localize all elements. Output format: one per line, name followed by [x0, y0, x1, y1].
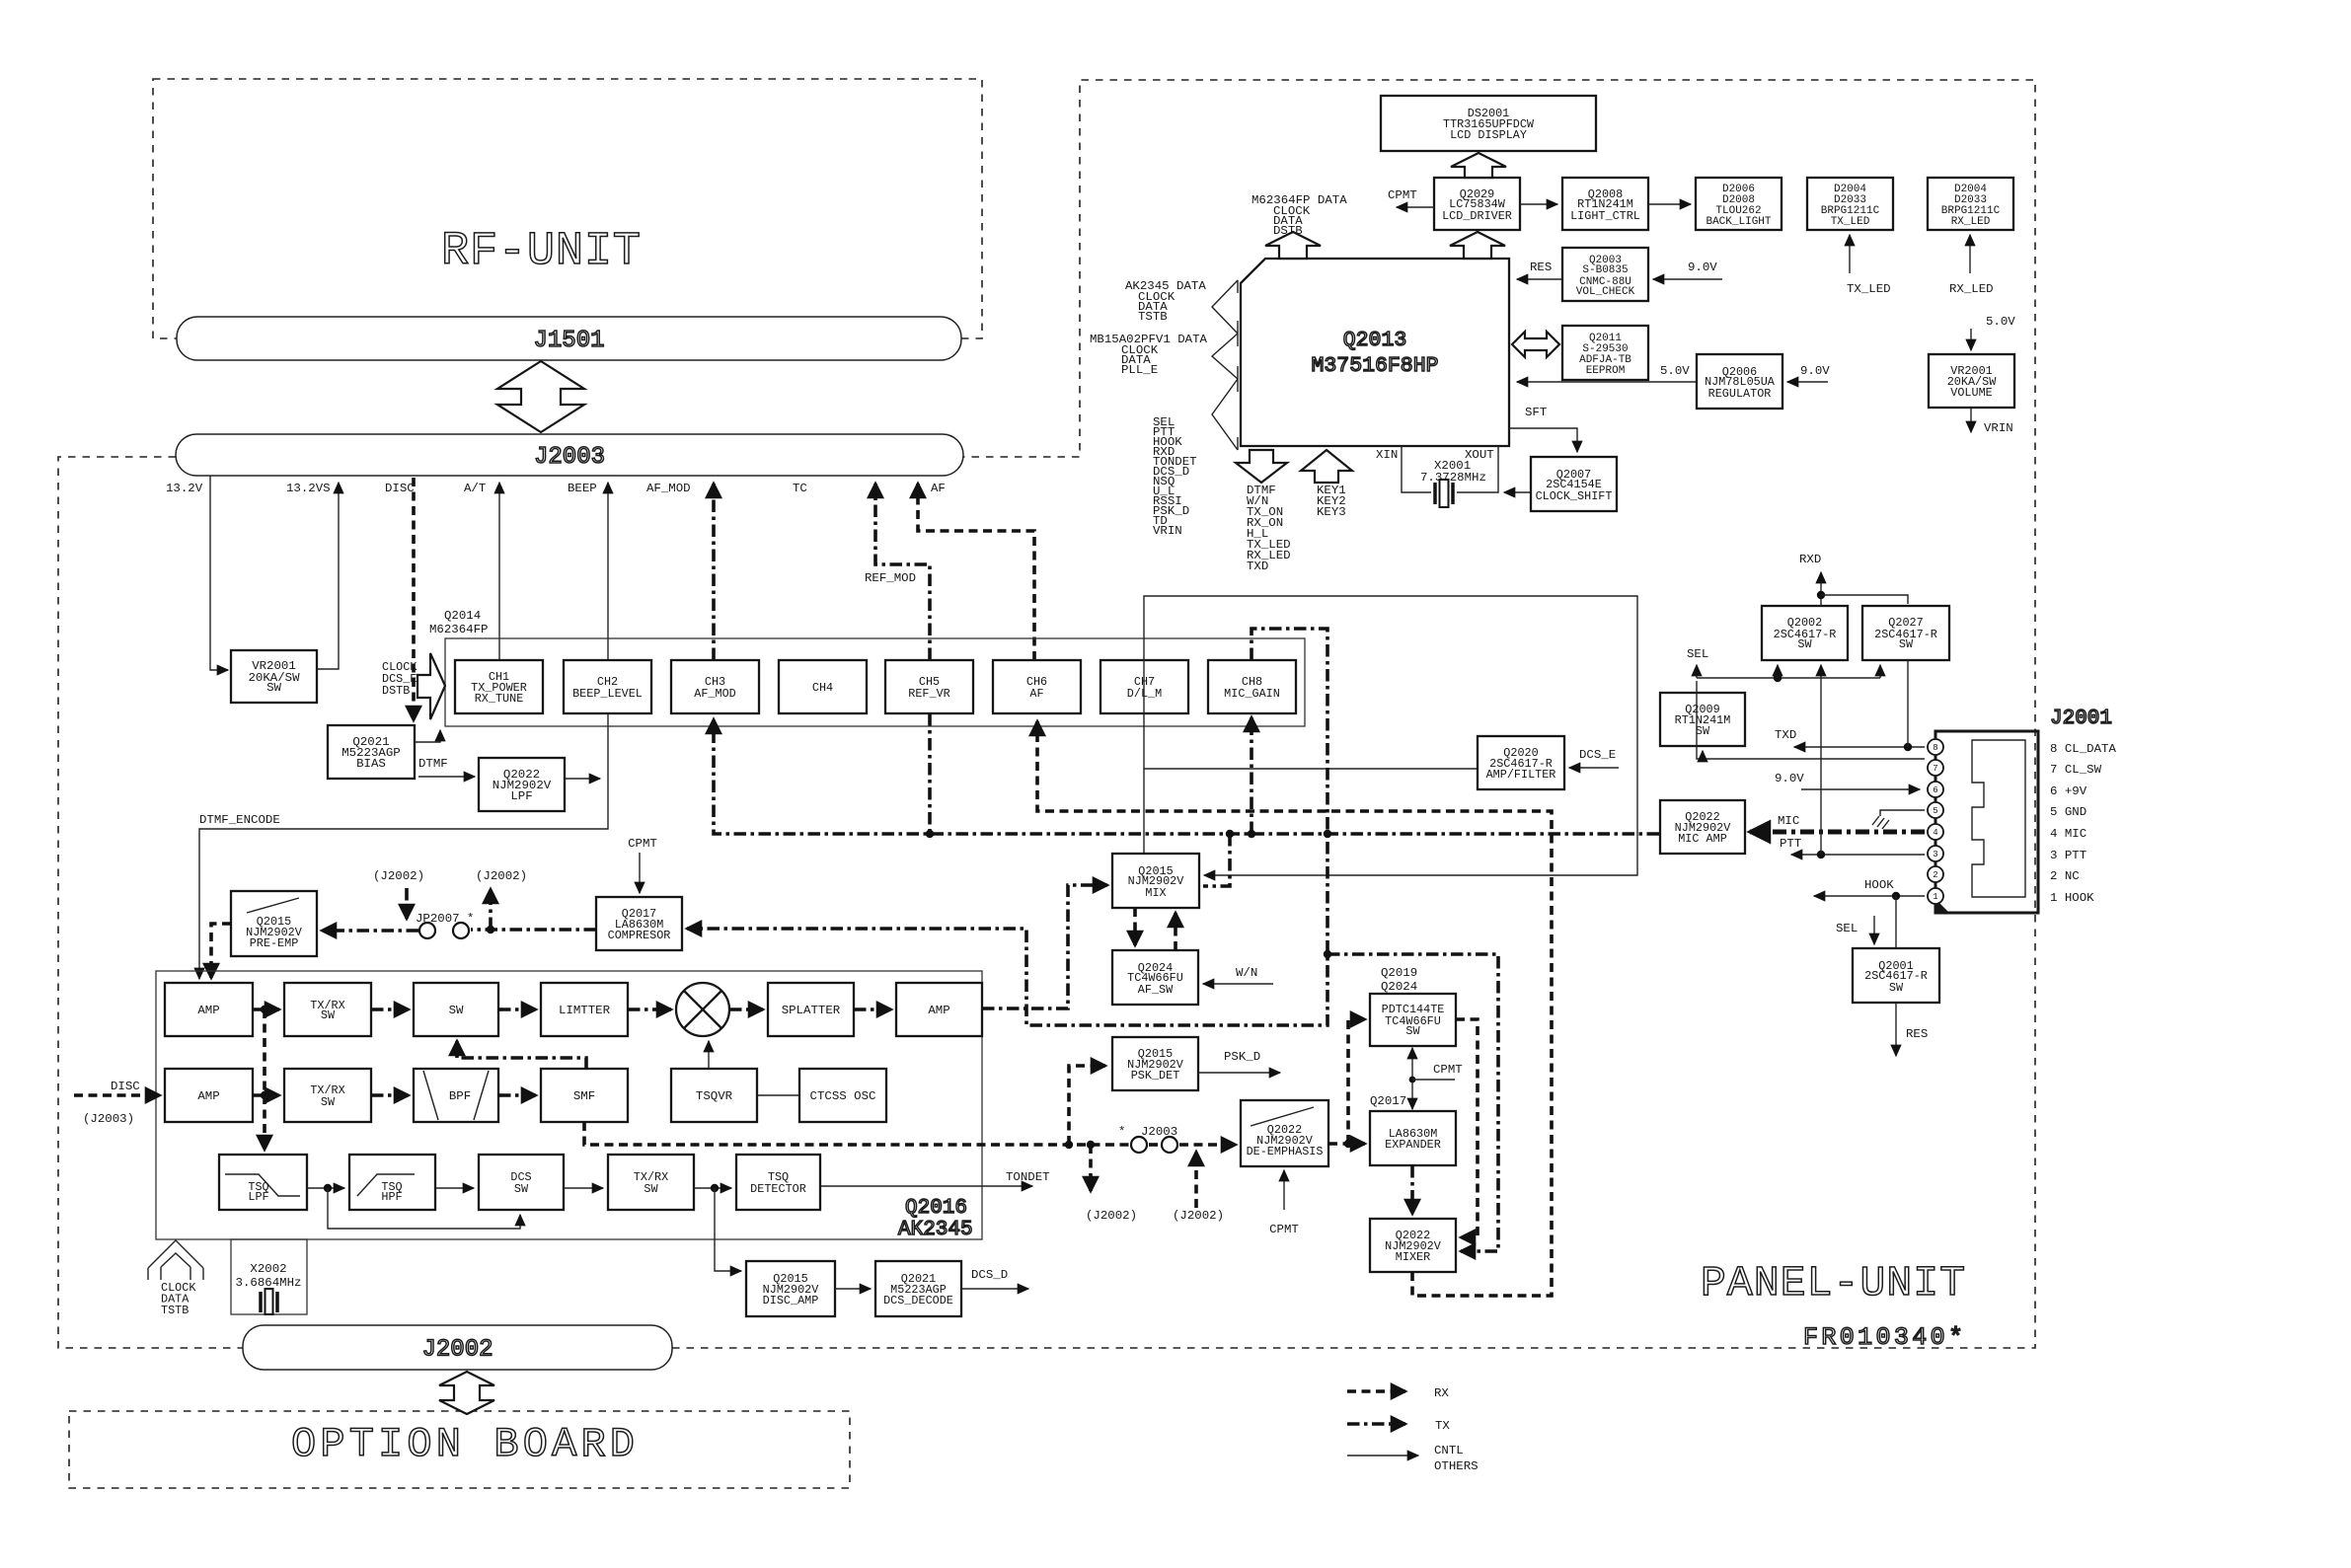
svg-text:AF: AF — [931, 482, 946, 495]
connector J1501 — [177, 317, 961, 360]
junction amp tie bottom — [261, 1091, 268, 1099]
crystal X2001 symbol — [1435, 483, 1453, 504]
arrow M62364FP data — [1265, 232, 1321, 259]
wire TSQVR to CTCSS OSC — [757, 1094, 799, 1096]
wire MIC from J2001 — [1750, 830, 1925, 835]
limiter — [541, 983, 628, 1036]
pin 2 NC — [1928, 866, 1943, 882]
pin 7 CL_SW — [1928, 760, 1943, 776]
wire RX_LED — [1969, 235, 1971, 273]
svg-text:XIN: XIN — [1376, 448, 1398, 462]
crystal X2002 symbol — [261, 1292, 277, 1312]
wire 9.0V to Q2006 — [1787, 381, 1828, 383]
chevron ticks — [1237, 280, 1239, 450]
svg-text:REF_MOD: REF_MOD — [865, 571, 916, 585]
svg-text:AF: AF — [1029, 687, 1043, 701]
wire TX/RX SW to BPF — [371, 1093, 409, 1097]
svg-text:TONDET: TONDET — [1006, 1170, 1050, 1184]
wire CPMT from Q2029 — [1397, 206, 1434, 208]
svg-text:13.2V: 13.2V — [166, 482, 203, 495]
svg-text:MIC_GAIN: MIC_GAIN — [1224, 687, 1280, 701]
svg-text:9.0V: 9.0V — [1775, 772, 1804, 785]
wire RES Q2003 — [1517, 278, 1562, 280]
svg-text:RX_LED: RX_LED — [1949, 282, 1994, 296]
wire LIMTTER to mixer — [628, 1008, 671, 1011]
PANEL-UNIT dashed border — [58, 80, 2035, 1348]
wire rx audio SMF out — [584, 1122, 1129, 1145]
svg-text:CH4: CH4 — [812, 681, 833, 695]
svg-text:LIMTTER: LIMTTER — [559, 1004, 611, 1017]
wire de-emphasis to expander — [1328, 1142, 1365, 1146]
codec outer box Q2016 AK2345 — [156, 971, 982, 1239]
wire HPF to DCS SW — [435, 1187, 474, 1189]
svg-text:LCD_DRIVER: LCD_DRIVER — [1442, 209, 1512, 223]
svg-text:RES: RES — [1530, 261, 1552, 274]
mixer Q2015 MIX — [1112, 854, 1199, 908]
compressor Q2017 — [596, 897, 682, 950]
lcd driver Q2029 — [1434, 178, 1520, 230]
svg-text:*: * — [1118, 1125, 1125, 1139]
wire SFT — [1509, 428, 1577, 452]
rx amp — [165, 1069, 253, 1122]
svg-text:3: 3 — [1933, 850, 1937, 859]
svg-text:7 CL_SW: 7 CL_SW — [2050, 763, 2102, 777]
svg-text:AK2345: AK2345 — [898, 1219, 973, 1241]
pin 3 PTT — [1928, 846, 1943, 861]
crystal X2002 cell — [231, 1239, 307, 1314]
wire to mixer Q2022 — [1327, 954, 1498, 1251]
jumper JP2007 pads — [419, 923, 435, 938]
switch Q2001 — [1853, 948, 1939, 1003]
RF-UNIT dashed border — [153, 79, 982, 338]
arrow KEY in — [1301, 450, 1352, 483]
svg-text:7.3728MHz: 7.3728MHz — [1420, 471, 1486, 485]
junction PTT — [1817, 851, 1825, 859]
svg-text:TX: TX — [1435, 1419, 1450, 1433]
svg-text:REGULATOR: REGULATOR — [1708, 387, 1772, 401]
wire TC / REF_MOD — [875, 484, 930, 660]
svg-text:J2003: J2003 — [1141, 1125, 1177, 1139]
dcs switch — [479, 1155, 564, 1210]
arrowheads PDTC/expander CPMT — [1411, 1048, 1413, 1049]
wire Q2029 to Q2008 — [1520, 203, 1557, 205]
wire TX/RX SW to SW — [371, 1008, 409, 1011]
svg-text:CTCSS OSC: CTCSS OSC — [810, 1089, 876, 1103]
svg-text:DSTB: DSTB — [1273, 224, 1303, 238]
svg-text:CNTL: CNTL — [1434, 1444, 1464, 1457]
wire CPMT to de-emphasis — [1283, 1170, 1285, 1210]
svg-text:BEEP_LEVEL: BEEP_LEVEL — [572, 687, 643, 701]
svg-text:COMPRESOR: COMPRESOR — [608, 929, 671, 942]
pin 5 GND — [1928, 802, 1943, 818]
svg-text:SW: SW — [321, 1095, 336, 1109]
tx/rx switch 2 — [284, 1069, 371, 1122]
svg-text:CPMT: CPMT — [628, 837, 657, 851]
tsq vr — [671, 1069, 757, 1122]
wire HOOK — [1814, 895, 1925, 897]
wire XIN — [1402, 446, 1431, 492]
svg-text:VOLUME: VOLUME — [1950, 386, 1992, 400]
svg-text:DETECTOR: DETECTOR — [750, 1182, 806, 1196]
af switch Q2024 — [1112, 950, 1198, 1005]
svg-text:REF_VR: REF_VR — [908, 687, 949, 701]
switch PDTC144TE — [1370, 994, 1456, 1046]
wire AF_MOD — [712, 484, 716, 660]
svg-text:PSK_DET: PSK_DET — [1131, 1069, 1180, 1083]
wire rx audio seg3 — [1179, 1143, 1236, 1147]
svg-text:M37516F8HP: M37516F8HP — [1311, 354, 1438, 378]
junction mic bus x1345 — [1324, 830, 1331, 838]
svg-text:Q2013: Q2013 — [1343, 329, 1407, 352]
switch Q2027 — [1862, 606, 1949, 660]
wire to PDTC switch — [1348, 1019, 1365, 1144]
svg-text:HOOK: HOOK — [1864, 878, 1894, 892]
svg-text:3.6864MHz: 3.6864MHz — [236, 1276, 302, 1290]
svg-text:LPF: LPF — [248, 1190, 268, 1204]
wire DISC into AMP — [74, 1093, 160, 1097]
wire TX/RX SW to TSQ DETECTOR — [694, 1187, 731, 1189]
svg-text:DCS_D: DCS_D — [971, 1268, 1008, 1282]
junction rx to psk — [1065, 1141, 1073, 1149]
tx led D2004 D2033 — [1807, 178, 1893, 230]
arrow Q2013 to Q2029 — [1450, 232, 1505, 259]
wire rx stub down (J2002) — [1089, 1145, 1093, 1191]
svg-text:AMP: AMP — [197, 1089, 219, 1103]
wire rx to PSK_DET — [1069, 1066, 1105, 1145]
arrow CLOCK DATA TSTB — [148, 1240, 203, 1280]
wire mixer to SPLATTER — [729, 1008, 763, 1011]
svg-text:M62364FP: M62364FP — [429, 623, 489, 636]
wire MIX to AF_SW — [1133, 908, 1137, 945]
amp/filter Q2020 — [1478, 736, 1564, 789]
svg-text:J2001: J2001 — [2050, 708, 2112, 730]
clock shift Q2007 — [1531, 457, 1617, 511]
svg-text:3 PTT: 3 PTT — [2050, 849, 2086, 862]
dac channel CH2 — [564, 660, 651, 713]
svg-text:DISC: DISC — [111, 1080, 140, 1093]
wire RXD to Q2027 — [1821, 595, 1908, 604]
svg-text:SW: SW — [266, 681, 281, 695]
dac channel CH6 — [993, 660, 1081, 713]
svg-text:5.0V: 5.0V — [1986, 315, 2015, 329]
connector J2001 body — [1935, 731, 2038, 913]
svg-text:MIX: MIX — [1145, 886, 1166, 900]
junction TXD — [1904, 743, 1912, 751]
wire mic bus — [714, 719, 1659, 834]
svg-text:DCS_E: DCS_E — [1579, 748, 1616, 762]
svg-text:PRE-EMP: PRE-EMP — [250, 936, 299, 950]
junction mic bus x1246 — [1226, 830, 1234, 838]
svg-text:BACK_LIGHT: BACK_LIGHT — [1706, 216, 1771, 228]
svg-text:6: 6 — [1933, 785, 1937, 795]
backlight D2006 D2008 — [1696, 178, 1782, 230]
dac channel CH3 — [671, 660, 759, 713]
svg-text:DTMF: DTMF — [418, 757, 448, 771]
junction rx to J2002 — [1087, 1141, 1095, 1149]
svg-text:VRIN: VRIN — [1984, 421, 2013, 435]
dac channel CH5 — [885, 660, 973, 713]
volume switch VR2001 — [231, 650, 317, 703]
svg-text:Q2024: Q2024 — [1381, 980, 1417, 994]
wire 9.0V to Q2003 — [1653, 278, 1722, 280]
svg-text:DCS_DECODE: DCS_DECODE — [883, 1294, 953, 1307]
svg-text:Q2017: Q2017 — [1370, 1094, 1406, 1108]
svg-text:RX_LED: RX_LED — [1951, 216, 1991, 228]
wire 5.0V Q2006 to cpu — [1517, 381, 1697, 383]
wire DCS_D out — [961, 1288, 1028, 1290]
wire MIXER af out — [1037, 721, 1552, 1296]
junction CPMT — [1409, 1077, 1416, 1083]
svg-text:DTMF_ENCODE: DTMF_ENCODE — [199, 813, 280, 827]
wire Q2027 to TXD — [1907, 660, 1909, 747]
wire PTT to Q2002 — [1820, 665, 1822, 855]
wire SEL into Q2002 — [1777, 665, 1779, 678]
svg-text:SW: SW — [644, 1182, 658, 1196]
svg-text:TSQVR: TSQVR — [696, 1089, 733, 1103]
dac channel CH4 — [779, 660, 867, 713]
wire 13.2V — [210, 476, 228, 670]
svg-text:RX: RX — [1434, 1386, 1449, 1400]
smf filter — [541, 1069, 628, 1122]
wire DCS_E stub — [1569, 767, 1619, 769]
regulator Q2006 — [1697, 354, 1782, 409]
svg-text:2 NC: 2 NC — [2050, 869, 2080, 883]
svg-text:2: 2 — [1933, 870, 1937, 880]
wire tx stub down from (J2002) — [405, 888, 409, 919]
legend TX line — [1347, 1422, 1405, 1426]
wire amp outputs tie — [263, 1009, 266, 1150]
arrow DTMF out — [1236, 450, 1287, 483]
wire DISC_AMP to DCS_DECODE — [835, 1288, 871, 1290]
chevron cpu signals — [1212, 379, 1238, 450]
svg-text:TX_LED: TX_LED — [1831, 216, 1870, 228]
svg-text:RX_TUNE: RX_TUNE — [475, 692, 524, 706]
psk detector Q2015 — [1112, 1037, 1198, 1090]
svg-text:A/T: A/T — [464, 482, 486, 495]
junction expander input — [1344, 1140, 1352, 1148]
svg-text:BPF: BPF — [449, 1089, 471, 1103]
wire Q2007 to crystal — [1504, 491, 1531, 493]
junction HOOK — [1892, 892, 1900, 900]
junction mic bus CH5 — [926, 830, 934, 838]
wire Q2020 loop to MIX — [1144, 596, 1637, 875]
svg-text:SW: SW — [321, 1008, 336, 1022]
svg-text:AF_MOD: AF_MOD — [646, 482, 691, 495]
svg-text:SMF: SMF — [573, 1089, 595, 1103]
wire TSQVR to mixer — [708, 1041, 710, 1069]
wire PDTC to MIXER — [1456, 1019, 1478, 1237]
arrow CLOCK DCS_E DSTB into Q2014 — [417, 653, 445, 719]
svg-text:9.0V: 9.0V — [1800, 364, 1830, 378]
tx out amp — [896, 983, 982, 1036]
svg-text:MIC: MIC — [1778, 814, 1799, 828]
svg-text:TSTB: TSTB — [1138, 310, 1168, 324]
svg-text:SFT: SFT — [1525, 406, 1547, 419]
wire TONDET out — [820, 1185, 1032, 1187]
svg-text:SW: SW — [1405, 1024, 1420, 1038]
svg-text:5 GND: 5 GND — [2050, 805, 2086, 819]
svg-text:S-B0835: S-B0835 — [1582, 264, 1628, 276]
wire AMP to TX/RX SW row2 — [253, 1093, 279, 1097]
svg-text:DE-EMPHASIS: DE-EMPHASIS — [1247, 1145, 1324, 1158]
switch Q2002 — [1762, 606, 1848, 660]
svg-text:RF-UNIT: RF-UNIT — [441, 226, 641, 278]
dac outer box Q2014 — [445, 638, 1305, 726]
svg-text:KEY3: KEY3 — [1317, 505, 1346, 519]
bias Q2021 — [328, 725, 415, 779]
wire to DISC_AMP — [715, 1188, 741, 1271]
wire TXD — [1794, 746, 1925, 748]
lcd display DS2001 — [1381, 96, 1596, 151]
wire SW to LIMTTER — [498, 1008, 536, 1011]
wire PTT — [1791, 854, 1925, 856]
wire pin5 gnd — [1880, 810, 1925, 816]
svg-text:Q2016: Q2016 — [905, 1197, 967, 1220]
wire mic bus to MIX — [1203, 834, 1230, 886]
eeprom Q2011 — [1562, 326, 1648, 380]
pin 8 CL_DATA — [1928, 739, 1943, 755]
wire W/N into AF_SW — [1203, 983, 1273, 985]
junction mic bus CH8 — [1248, 830, 1255, 838]
double arrow J2002-OPTION BOARD — [439, 1372, 494, 1414]
junction tsq lpf out — [324, 1184, 332, 1192]
wire 9.0V to pin6 — [1801, 788, 1920, 790]
legend RX line — [1347, 1389, 1405, 1393]
lpf Q2022 — [479, 758, 565, 811]
wire DTMF into LPF — [418, 776, 475, 778]
svg-text:BIAS: BIAS — [356, 757, 386, 771]
switch SW — [414, 983, 498, 1036]
svg-text:PTT: PTT — [1780, 837, 1801, 851]
arrow Q2013-Q2011 eeprom bus — [1512, 332, 1559, 357]
wire CPMT stub — [1412, 1079, 1455, 1081]
wire Q2009 base — [1702, 751, 1704, 759]
svg-text:TXD: TXD — [1775, 728, 1796, 742]
svg-text:LIGHT_CTRL: LIGHT_CTRL — [1570, 209, 1640, 223]
svg-text:JP2007 *: JP2007 * — [416, 912, 475, 926]
svg-text:TX_LED: TX_LED — [1847, 282, 1891, 296]
wire Q2017 to JP2007 to PRE-EMP — [471, 928, 596, 932]
svg-text:EXPANDER: EXPANDER — [1385, 1138, 1441, 1152]
wire Q2001 RES — [1895, 1003, 1897, 1056]
tx/rx switch 3 — [608, 1155, 694, 1210]
wire BPF to SMF — [498, 1093, 536, 1097]
mixer Q2022 MIXER — [1370, 1219, 1456, 1272]
svg-text:7: 7 — [1933, 764, 1937, 774]
wire XOUT — [1457, 446, 1498, 492]
svg-text:SW: SW — [449, 1004, 464, 1017]
svg-text:CPMT: CPMT — [1269, 1223, 1299, 1236]
wire tx stub up to (J2002) — [489, 889, 493, 930]
svg-text:W/N: W/N — [1236, 966, 1257, 980]
wire TSQ LPF to HPF — [307, 1187, 344, 1189]
dcs decoder Q2021 — [875, 1261, 961, 1316]
svg-text:TSTB: TSTB — [161, 1304, 189, 1317]
tsq low pass filter — [219, 1155, 307, 1210]
svg-text:EEPROM: EEPROM — [1586, 365, 1626, 377]
wire AMP out to MIX — [982, 885, 1107, 1008]
svg-text:(J2003): (J2003) — [83, 1112, 134, 1126]
svg-text:SW: SW — [1797, 637, 1812, 651]
svg-text:AMP: AMP — [928, 1004, 949, 1017]
wire Q2008 to D2006 — [1648, 203, 1691, 205]
wire SEL rail — [1697, 681, 1925, 759]
pre-emphasis Q2015 — [231, 891, 317, 956]
svg-text:8 CL_DATA: 8 CL_DATA — [2050, 742, 2116, 756]
ground symbol — [1872, 816, 1889, 829]
wire 5.0V to volume — [1970, 329, 1972, 350]
svg-text:MIC AMP: MIC AMP — [1678, 832, 1727, 846]
svg-text:DSTB: DSTB — [382, 684, 410, 698]
svg-text:TXD: TXD — [1247, 560, 1268, 573]
tsq high pass filter — [349, 1155, 435, 1210]
pin 4 MIC — [1928, 824, 1943, 840]
svg-text:LPF: LPF — [510, 789, 532, 803]
svg-text:(J2002): (J2002) — [1173, 1209, 1224, 1223]
svg-text:HPF: HPF — [381, 1190, 402, 1204]
wire PSK_D out — [1198, 1072, 1280, 1074]
volume check Q2003 — [1562, 248, 1648, 301]
svg-text:PANEL-UNIT: PANEL-UNIT — [1701, 1259, 1965, 1307]
arrow Q2029 to DS2001 — [1451, 153, 1506, 178]
svg-text:AMP: AMP — [197, 1004, 219, 1017]
svg-text:Q2014: Q2014 — [444, 609, 481, 623]
wire AF from J2003 — [918, 484, 1034, 660]
wire expander to MIXER — [1410, 1165, 1414, 1214]
junction tx to J2002 — [487, 926, 494, 933]
wire PRE-EMP out to AMP — [211, 924, 231, 978]
svg-text:VRIN: VRIN — [1153, 524, 1182, 538]
splatter filter — [768, 983, 854, 1036]
band pass filter BPF — [414, 1069, 498, 1122]
wire DISC from J2003 — [412, 478, 416, 720]
svg-text:(J2002): (J2002) — [1086, 1209, 1137, 1223]
tx amp — [165, 983, 253, 1036]
svg-text:AF_MOD: AF_MOD — [694, 687, 735, 701]
svg-text:4 MIC: 4 MIC — [2050, 827, 2086, 841]
wire Q2020 loop left segment — [1143, 769, 1145, 854]
wire VRIN — [1970, 408, 1972, 432]
switch Q2009 — [1660, 693, 1745, 746]
wire AF_SW to MIX — [1174, 913, 1177, 950]
wire rx stub up (J2002) — [1194, 1152, 1198, 1208]
disc amp Q2015 — [746, 1261, 835, 1316]
svg-text:1 HOOK: 1 HOOK — [2050, 891, 2094, 905]
wire CPMT to Q2017 — [639, 853, 641, 893]
wire SEL to switches — [1697, 677, 1880, 679]
svg-text:SW: SW — [1899, 637, 1914, 651]
svg-text:4: 4 — [1933, 828, 1937, 838]
wire JP2007 to PRE-EMP — [322, 929, 418, 933]
legend CNTL line — [1347, 1455, 1418, 1456]
wire A/T — [498, 483, 500, 660]
tsq detector — [736, 1155, 820, 1210]
expander LA8630M — [1370, 1111, 1456, 1165]
svg-text:J2003: J2003 — [534, 444, 605, 471]
pin 6 +9V — [1928, 782, 1943, 797]
svg-text:5.0V: 5.0V — [1660, 364, 1690, 378]
wire HOOK to Q2001 — [1895, 896, 1897, 948]
svg-text:5: 5 — [1933, 806, 1937, 816]
wire LPF out — [565, 778, 600, 780]
wire SPLATTER to AMP — [854, 1008, 891, 1011]
OPTION BOARD dashed border — [69, 1411, 850, 1488]
svg-text:AMP/FILTER: AMP/FILTER — [1486, 768, 1556, 782]
svg-text:FR010340*: FR010340* — [1803, 1323, 1963, 1352]
junction RXD — [1817, 591, 1825, 599]
svg-text:PSK_D: PSK_D — [1224, 1050, 1260, 1064]
svg-text:RES: RES — [1906, 1027, 1928, 1041]
